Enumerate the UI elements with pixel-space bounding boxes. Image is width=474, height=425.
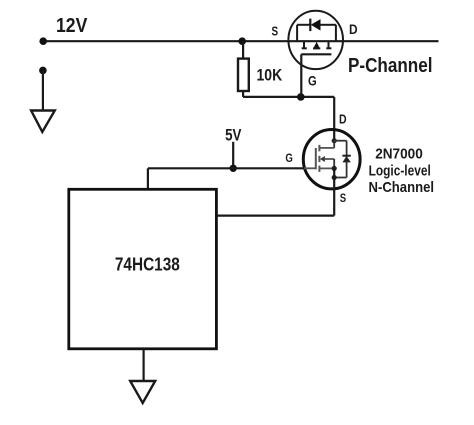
svg-text:G: G (308, 74, 317, 89)
resistor R 10K (242, 41, 244, 58)
ground (12V side) (31, 111, 55, 132)
gate bar (315, 148, 317, 169)
svg-text:D: D (339, 111, 347, 126)
IC U1 74HC138 box (69, 189, 217, 348)
svg-text:Logic-level: Logic-level (369, 163, 431, 180)
wire 5V drop (232, 142, 234, 169)
wire 74HC138 ground lead (143, 349, 145, 381)
node resistor top (238, 37, 246, 45)
node 5V junction (230, 165, 237, 172)
wire down to 74HC138 (147, 168, 149, 189)
gate plate (301, 53, 331, 55)
gate lead inside (304, 167, 316, 169)
svg-text:74HC138: 74HC138 (115, 255, 180, 275)
body circle (288, 11, 343, 69)
bridge left vertical (296, 25, 298, 41)
wire ground stub (42, 70, 44, 110)
svg-text:S: S (340, 191, 346, 205)
node 12V junction (39, 37, 47, 45)
bridge horizontal (297, 24, 310, 26)
ground (74HC138) (130, 381, 155, 403)
svg-text:12V: 12V (56, 15, 88, 37)
channel contact middle/bottom (318, 166, 320, 172)
wire N drain vertical (333, 97, 335, 141)
body diode branch bottom (334, 177, 346, 179)
wire 12V rail (43, 40, 438, 42)
body diode branch top (334, 140, 346, 142)
wire gate net horizontal (148, 167, 304, 169)
svg-text:N-Channel: N-Channel (369, 179, 435, 196)
svg-text:D: D (349, 22, 358, 37)
node P gate junction (297, 93, 305, 101)
body diode cathode bar (342, 155, 350, 157)
svg-text:5V: 5V (225, 126, 242, 145)
substrate arrow (313, 42, 320, 49)
transistor Q1 P-channel MOSFET (288, 11, 343, 97)
body circle (303, 130, 360, 189)
drain to channel step (333, 141, 335, 148)
svg-text:S: S (272, 25, 279, 39)
source vertical (333, 168, 335, 215)
channel leg left (303, 41, 305, 48)
source node dots (332, 166, 337, 171)
drain node dot (332, 138, 337, 143)
gate lead (300, 54, 302, 97)
svg-text:P-Channel: P-Channel (348, 55, 433, 77)
node ground stub (39, 67, 47, 75)
substrate arrow (320, 156, 325, 162)
svg-text:2N7000: 2N7000 (375, 146, 423, 163)
body diode cathode bar (309, 19, 311, 32)
wire source to 74HC138 (216, 215, 334, 217)
bridge right vertical (335, 25, 337, 41)
body diode triangle (311, 19, 321, 31)
wire gate row (243, 96, 334, 98)
channel contact top (318, 145, 320, 151)
svg-text:G: G (285, 151, 293, 165)
transistor Q2 N-channel MOSFET 2N7000 (303, 130, 360, 216)
channel leg right (328, 41, 330, 48)
svg-text:10K: 10K (257, 66, 283, 85)
channel contact middle (318, 156, 320, 162)
body diode triangle (342, 156, 350, 162)
